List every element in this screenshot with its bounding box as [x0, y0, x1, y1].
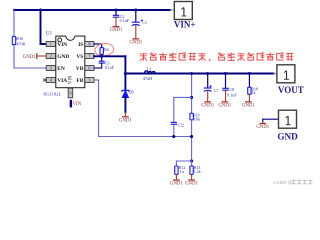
svg-text:470K: 470K [16, 41, 25, 46]
ground GND1 (pin 2) [23, 53, 46, 60]
svg-text:VIA: VIA [57, 78, 67, 84]
junction R12/R13 node [190, 159, 193, 162]
port VOUT [274, 73, 277, 75]
wire pin 8 (IS) to R6 [94, 43, 102, 45]
svg-text:C12: C12 [178, 123, 185, 127]
wire R6 to VS node [101, 54, 103, 56]
pin labels right [76, 42, 84, 84]
pin 6 (VB) [85, 66, 94, 71]
wire C12 branch [174, 96, 192, 98]
svg-text:VIN: VIN [69, 75, 74, 84]
resistor R13 body [190, 166, 193, 174]
junction C7 [206, 72, 209, 75]
svg-text:VB: VB [76, 66, 84, 72]
svg-text:C7: C7 [214, 88, 219, 93]
ground GND1 (C2) [110, 27, 123, 34]
wire R18 stub [248, 74, 250, 88]
junction VIN rail / pin1 drop [39, 8, 42, 11]
wire C12 to FB wire [173, 125, 175, 137]
ground GND1 (D6) [119, 117, 132, 124]
wire C2 to GND1 [115, 18, 117, 27]
pin labels left [57, 42, 69, 84]
svg-text:GND1: GND1 [201, 104, 214, 109]
wire C7 stub [207, 74, 209, 88]
pin 1 (VIN) [46, 42, 55, 47]
svg-text:3: 3 [50, 66, 52, 71]
diode D6 [124, 74, 126, 91]
junction C1 [134, 8, 137, 11]
ground GND1 (R18) [242, 102, 255, 109]
capacitor C7 (electrolytic) [204, 85, 212, 91]
junction switch node [124, 72, 127, 75]
resistor R16 body [12, 37, 15, 45]
svg-text:IS: IS [78, 42, 83, 48]
junction C8 [224, 72, 227, 75]
svg-text:6: 6 [88, 66, 90, 71]
junction C12/FB [172, 135, 175, 138]
wire R10 branch from rail [191, 74, 193, 114]
svg-text:U1: U1 [46, 32, 53, 37]
port box VOUT [277, 65, 304, 95]
svg-text:FB: FB [76, 78, 83, 84]
svg-text:1.2k: 1.2k [194, 170, 201, 174]
svg-text:GND: GND [57, 54, 69, 60]
capacitor C3 stub [101, 56, 103, 61]
no-connect X at pin 4 [43, 78, 46, 81]
svg-text:GND1: GND1 [170, 182, 183, 187]
wire D6 anode down [124, 98, 126, 113]
junction C12 top [190, 96, 193, 99]
ground GND1 (R12) [170, 180, 183, 187]
svg-text:1w: 1w [180, 170, 185, 174]
svg-text:GND1: GND1 [23, 55, 36, 60]
pin 4 (VIA) [46, 78, 55, 83]
svg-text:D6: D6 [129, 91, 134, 95]
svg-text:GND1: GND1 [119, 118, 132, 123]
op-amp/regulator U1 EG1192L body [56, 36, 85, 88]
svg-text:VIN: VIN [57, 42, 67, 48]
port VIN+ [170, 9, 174, 11]
ground GND1 (port) [256, 124, 269, 131]
junction R18 [248, 72, 251, 75]
svg-text:1k: 1k [252, 91, 256, 95]
wire VIN+ top rail [14, 9, 170, 11]
annotation text (red) [140, 53, 293, 61]
junction C2 [114, 8, 117, 11]
capacitor C3 [99, 61, 105, 63]
ground GND1 (R13) [185, 180, 198, 187]
wire R18 to GND1 [248, 94, 250, 101]
svg-text:0.1uF: 0.1uF [120, 18, 130, 23]
pin 2 (GND) [46, 54, 55, 59]
svg-text:VS: VS [76, 54, 83, 60]
svg-text:GND1: GND1 [110, 28, 123, 33]
capacitor C1 (electrolytic) [132, 19, 143, 25]
port box VIN+ [174, 2, 196, 30]
svg-text:GND1: GND1 [242, 104, 255, 109]
inductor L1 [144, 71, 155, 74]
wire FB (pin 5) down [94, 79, 99, 81]
svg-text:C3: C3 [105, 62, 110, 66]
ground GND1 (C7) [201, 102, 214, 109]
svg-text:VIN+: VIN+ [174, 19, 196, 29]
wire output rail [125, 73, 273, 75]
svg-text:GND1: GND1 [256, 125, 269, 130]
svg-text:L1: L1 [147, 67, 152, 72]
junction R6/VS [100, 55, 103, 58]
svg-text:0.1uF: 0.1uF [227, 93, 237, 98]
wire R12 to GND1 [175, 174, 177, 179]
wire to R13 [191, 161, 193, 166]
svg-text:0.1uF: 0.1uF [105, 66, 115, 70]
pin 8 (IS) [85, 42, 94, 47]
capacitor C12 [171, 122, 177, 124]
wire GND port [263, 118, 279, 120]
wire R10 to FB node [191, 120, 193, 161]
svg-text:EN: EN [57, 66, 65, 72]
svg-text:C1: C1 [142, 20, 147, 25]
wire C1 to GND1 [135, 26, 137, 39]
wire VS (pin 7) to switch node [94, 55, 125, 57]
pin 9 pad [68, 88, 73, 98]
wire R16/EN net vertical [13, 9, 15, 37]
svg-text:EG1192L: EG1192L [43, 91, 61, 96]
wire C2 stub [115, 10, 117, 15]
wire R13 to GND1 [191, 174, 193, 179]
ground GND1 (C8) [218, 102, 231, 109]
svg-text:47uH: 47uH [143, 76, 152, 81]
svg-text:3.6k: 3.6k [193, 117, 200, 121]
wire to GND1 (D6) [124, 112, 126, 116]
wire C1 stub [135, 10, 137, 22]
svg-text:GND1: GND1 [218, 104, 231, 109]
wire to R12 [175, 161, 177, 166]
svg-text:CSDN @: CSDN @ [273, 180, 292, 185]
svg-text:GND: GND [277, 131, 298, 141]
pin 3 (EN) [46, 66, 55, 71]
capacitor C2 [113, 15, 119, 17]
pin 5 (FB) [85, 78, 94, 83]
svg-text:9: 9 [70, 91, 72, 95]
ground GND1 (C1) [129, 39, 142, 46]
junction FB node [190, 135, 193, 138]
svg-text:5: 5 [88, 78, 90, 83]
resistor R12 body [175, 166, 178, 174]
port box GND [277, 110, 298, 141]
wire VIN drop to pin 1 [40, 10, 42, 44]
wire C3 to pin 6 VB [101, 64, 103, 68]
svg-text:R6: R6 [104, 48, 109, 52]
svg-text:1: 1 [50, 42, 52, 47]
highlight ellipse around R6 [94, 42, 114, 56]
pin 7 (VS) [85, 54, 94, 59]
wire C8 stub [225, 74, 227, 89]
resistor R6 body [100, 48, 103, 55]
svg-text:VOUT: VOUT [278, 85, 304, 95]
svg-text:GND1: GND1 [129, 41, 142, 46]
svg-text:C8: C8 [229, 87, 234, 92]
wire EN horizontal to pin 3 [14, 67, 46, 69]
resistor R10 body [190, 113, 193, 120]
svg-text:8: 8 [88, 42, 90, 47]
svg-text:7: 7 [88, 54, 90, 59]
svg-text:GND1: GND1 [185, 182, 198, 187]
svg-text:2: 2 [50, 54, 52, 59]
svg-text:VIN: VIN [73, 102, 82, 107]
wire C8 to GND1 [225, 90, 227, 101]
watermark CSDN [273, 180, 312, 185]
resistor R18 body [248, 87, 251, 94]
power port VIN (bar) at pin 9 [70, 100, 82, 108]
wire C7 to GND1 [207, 91, 209, 101]
junction R10 branch [190, 72, 193, 75]
capacitor C8 [222, 88, 228, 90]
